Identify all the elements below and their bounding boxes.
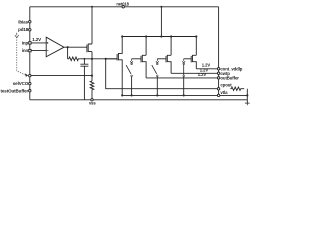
wire M1 drain	[91, 7, 93, 44]
svg-text:pd18: pd18	[18, 27, 29, 32]
wire M3 gate lead	[132, 58, 141, 60]
wire inn	[30, 50, 46, 52]
junction busA M3	[145, 35, 147, 37]
transistor M3	[142, 37, 146, 78]
resistor R2	[90, 81, 94, 100]
svg-text:ibias: ibias	[18, 19, 28, 24]
wire S1 drop	[131, 77, 133, 96]
pin cont_vddlp	[217, 68, 219, 70]
junction R3 vtla	[246, 94, 248, 96]
wire top rail net018	[30, 6, 219, 8]
junction opamp out	[67, 46, 69, 48]
wire inp	[30, 42, 46, 44]
pin pd18	[29, 29, 31, 31]
wire M3 drain to outBuffer	[146, 77, 219, 79]
junction node-M1	[91, 58, 93, 60]
wire R3 down to ground	[246, 89, 248, 103]
capacitor C1	[80, 59, 88, 100]
transistor M5	[193, 37, 197, 69]
wire vss rail	[30, 99, 248, 101]
wire vtla line	[122, 94, 247, 96]
wire rail to busA	[160, 7, 162, 37]
junction vtla S2	[156, 94, 158, 96]
wire node line	[79, 58, 117, 60]
ground symbol	[245, 103, 250, 105]
op-amp U1	[46, 37, 64, 57]
wire S3 drop	[183, 77, 185, 96]
pin b	[29, 74, 31, 76]
svg-text:vtla: vtla	[220, 90, 228, 95]
junction rail-busA drop	[160, 6, 162, 8]
wire left pin column	[29, 7, 31, 100]
transistor M4	[167, 37, 171, 74]
svg-text:net018: net018	[116, 1, 129, 6]
pin cpout	[217, 88, 219, 90]
junction busA M4	[170, 35, 172, 37]
junction vtla S3	[183, 94, 185, 96]
transistor M2	[118, 37, 122, 96]
pin net018	[122, 6, 124, 8]
pin inn	[29, 49, 31, 51]
wire M2 gate lead	[106, 58, 117, 60]
resistor R1	[68, 57, 80, 61]
svg-text:inn: inn	[22, 48, 29, 53]
junction busA rail	[160, 35, 162, 37]
pin vtla	[217, 94, 219, 96]
wire M5 drain to cont_vddlp	[196, 68, 218, 70]
wire opamp out down to R1	[67, 47, 69, 59]
pin selVCO	[29, 82, 31, 84]
pin outBuffer	[217, 77, 219, 79]
wire M4 drain to cwtp	[171, 72, 219, 74]
wire right rail / right pin column	[218, 7, 220, 96]
resistor R3	[230, 87, 244, 90]
wire L4 branch down	[106, 59, 219, 89]
junction b-line	[91, 75, 93, 77]
pin inp	[29, 42, 31, 44]
wire M1 source down to R2	[91, 59, 93, 81]
svg-text:1.2V: 1.2V	[198, 72, 207, 77]
svg-text:inp: inp	[22, 40, 29, 45]
svg-text:testOutBuffer: testOutBuffer	[0, 88, 28, 93]
wire S2 drop	[156, 77, 158, 96]
wire dashed pd18 annotation	[15, 33, 19, 38]
pin cwtp	[217, 72, 219, 74]
wire opamp output to M1 gate	[64, 46, 87, 48]
switch S3 closed	[182, 59, 185, 63]
svg-text:1.2V: 1.2V	[32, 37, 41, 42]
transistor M1	[88, 44, 92, 52]
junction rail-M1	[91, 6, 93, 8]
pin ibias	[29, 21, 31, 23]
wire bus A	[122, 36, 196, 38]
pin vss	[91, 99, 93, 101]
junction node-branch	[105, 58, 107, 60]
junction vtla M2	[121, 94, 123, 96]
pin testOutBuffer	[29, 90, 31, 92]
svg-text:cpout: cpout	[220, 82, 232, 87]
svg-text:outBuffer: outBuffer	[220, 76, 239, 81]
junction busA left	[121, 35, 123, 37]
svg-text:selVCO: selVCO	[13, 81, 29, 86]
switch S1	[130, 59, 133, 63]
junction busA right	[195, 35, 197, 37]
wire M5 gate lead	[184, 58, 192, 60]
junction vtla S1	[131, 94, 133, 96]
wire M4 gate lead	[157, 58, 166, 60]
wire M1 source	[91, 52, 93, 59]
switch S2	[156, 59, 159, 63]
junction node-cap	[84, 58, 86, 60]
wire b-line	[30, 75, 92, 77]
svg-text:vss: vss	[89, 101, 96, 106]
